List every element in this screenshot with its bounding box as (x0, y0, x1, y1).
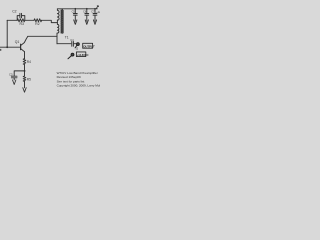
wire winding bottom to output (56, 33, 58, 44)
wire junction to R5 (24, 71, 26, 76)
wire collector rail (28, 35, 57, 37)
ground C3 (13, 80, 16, 85)
svg-text:T1: T1 (65, 35, 69, 39)
ground C7 (93, 20, 96, 25)
capacitor C3 (11, 76, 17, 80)
transformer T1 primary lower winding (57, 24, 58, 33)
node rail C6 (86, 8, 88, 10)
transistor Q1 (21, 36, 28, 51)
ground C6 (85, 20, 88, 25)
label J1 fragment (0, 49, 1, 51)
wire input to base (0, 46, 20, 48)
svg-text:C2: C2 (12, 10, 16, 14)
resistor R4 (23, 59, 26, 65)
svg-text:R2: R2 (35, 22, 39, 26)
node base junction (6, 46, 8, 48)
connector J3 power (68, 53, 74, 59)
transformer T1 core (60, 10, 61, 33)
wire feedback vertical (6, 20, 8, 47)
resistor R2 (34, 19, 42, 22)
wire R5 to ground (24, 82, 26, 88)
wire junction to bypass cap (14, 71, 24, 76)
capacitor C6 (85, 9, 89, 21)
resistor R3 (17, 19, 25, 22)
svg-text:C3: C3 (9, 73, 13, 77)
capacitor C4 output (72, 42, 77, 47)
svg-text:OUTPUT: OUTPUT (83, 44, 95, 48)
svg-text:+13.8VDC: +13.8VDC (77, 53, 89, 57)
wire feedback top (7, 19, 17, 21)
wire emitter down (24, 52, 26, 59)
ground R5 (23, 88, 26, 93)
capacitor C5 (73, 9, 77, 21)
node rail C7 (94, 8, 96, 10)
output label box (83, 43, 93, 48)
wire secondary top stub (61, 9, 63, 10)
svg-text:Copyright 2000, 2009, Larry Mo: Copyright 2000, 2009, Larry Molitor (57, 84, 100, 88)
resistor R5 (23, 76, 26, 82)
wire emitter to junction (24, 65, 26, 71)
transformer T1 tap segment (56, 20, 58, 25)
wire primary top stub (56, 9, 58, 11)
capacitor C7 (93, 9, 97, 21)
power label box (76, 52, 85, 57)
svg-text:R4: R4 (27, 60, 31, 64)
transformer T1 secondary winding (62, 10, 64, 33)
svg-text:Q1: Q1 (15, 40, 20, 44)
supply rail (57, 8, 97, 10)
wire R3 to R2 (25, 19, 34, 21)
svg-text:+12V: +12V (96, 10, 100, 14)
wire output line (57, 43, 71, 45)
ground C5 (74, 20, 77, 25)
svg-text:R3: R3 (20, 22, 24, 26)
svg-text:R5: R5 (27, 77, 31, 81)
connector J2 (75, 43, 79, 48)
transformer T1 primary upper winding (57, 10, 59, 20)
supply arrow (96, 6, 98, 9)
node rail C5 (74, 8, 76, 10)
wire R2 to tap (42, 20, 58, 22)
capacitor C2 (17, 13, 25, 20)
node emitter junction (24, 70, 26, 72)
